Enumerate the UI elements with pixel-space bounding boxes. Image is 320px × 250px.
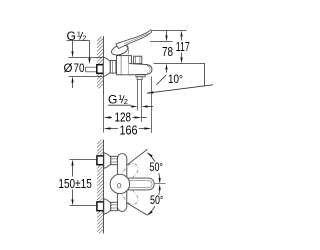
diverter knob (side view) (134, 56, 142, 63)
svg-text:2: 2 (82, 33, 86, 42)
lever centerline (154, 183, 166, 185)
top union square (front view) (97, 156, 104, 165)
outlet extension lines (137, 80, 139, 111)
label G1/2 (top inlet) (67, 29, 90, 43)
lever blade (side view) (116, 30, 152, 49)
body top reference line (150, 41, 173, 43)
svg-text:50°: 50° (150, 193, 164, 207)
svg-text:Ø: Ø (64, 63, 73, 75)
svg-text:70: 70 (74, 61, 85, 75)
bottom union square (front view) (97, 202, 104, 211)
valve body (side view) (117, 56, 132, 75)
ghost handle upper (dashed, +50deg up) (120, 161, 140, 182)
dim 150±15 (71, 160, 73, 166)
handle cap circle (front view) (110, 174, 129, 193)
svg-text:G: G (108, 92, 117, 106)
spout tip extension line (151, 77, 153, 134)
wall face line (front view) (103, 140, 105, 234)
svg-text:117: 117 (176, 39, 190, 54)
svg-text:50°: 50° (150, 160, 164, 174)
wall face extension line (102, 94, 104, 132)
leader arrow from G1/2 to pipe (89, 41, 91, 59)
svg-text:2: 2 (124, 97, 128, 106)
bottom reference line (154, 63, 206, 65)
wall hatching (side view) (97, 37, 103, 89)
dia 70 dimension (69, 41, 103, 89)
top union nut (front view) (111, 156, 118, 164)
dim 166 (104, 127, 111, 129)
svg-text:10°: 10° (168, 72, 183, 86)
bottom escutcheon cone (front view) (104, 199, 111, 215)
svg-text:150±15: 150±15 (58, 176, 91, 191)
label G1/2 (outlet, bottom) (108, 92, 131, 106)
dim 117 (180, 31, 182, 37)
lower 50deg tick (126, 203, 147, 215)
150 dim extension lines (70, 159, 97, 161)
svg-text:166: 166 (120, 123, 138, 138)
handle top reference line (152, 30, 187, 32)
wall hatching (front view) (97, 140, 103, 234)
outlet thread (side view) (136, 75, 145, 77)
mini G1/2 dimension arrows (131, 105, 137, 107)
wall face line (side view) (102, 36, 104, 94)
50deg arc upper (148, 153, 155, 162)
body column (front view) (117, 154, 126, 212)
svg-text:78: 78 (162, 44, 173, 59)
union nut (side view) (110, 61, 117, 74)
union square (side view) (97, 65, 104, 74)
upper 50deg tick (127, 149, 147, 165)
escutcheon cone (side view) (103, 57, 110, 76)
supply pipe behind wall (86, 67, 97, 72)
top escutcheon cone (front view) (104, 153, 111, 169)
indicator dot (118, 183, 121, 188)
lever (front view) (123, 178, 154, 190)
dim 78 (166, 31, 168, 36)
ghost handle lower (dashed, -50deg down) (120, 185, 140, 206)
dim 128 (104, 116, 111, 118)
spout (side view) (129, 64, 152, 75)
bottom union nut (front view) (111, 202, 118, 210)
angle 10 deg annotation (204, 64, 206, 87)
50deg arc lower (148, 206, 155, 215)
lever cap dome (side view) (110, 43, 129, 57)
